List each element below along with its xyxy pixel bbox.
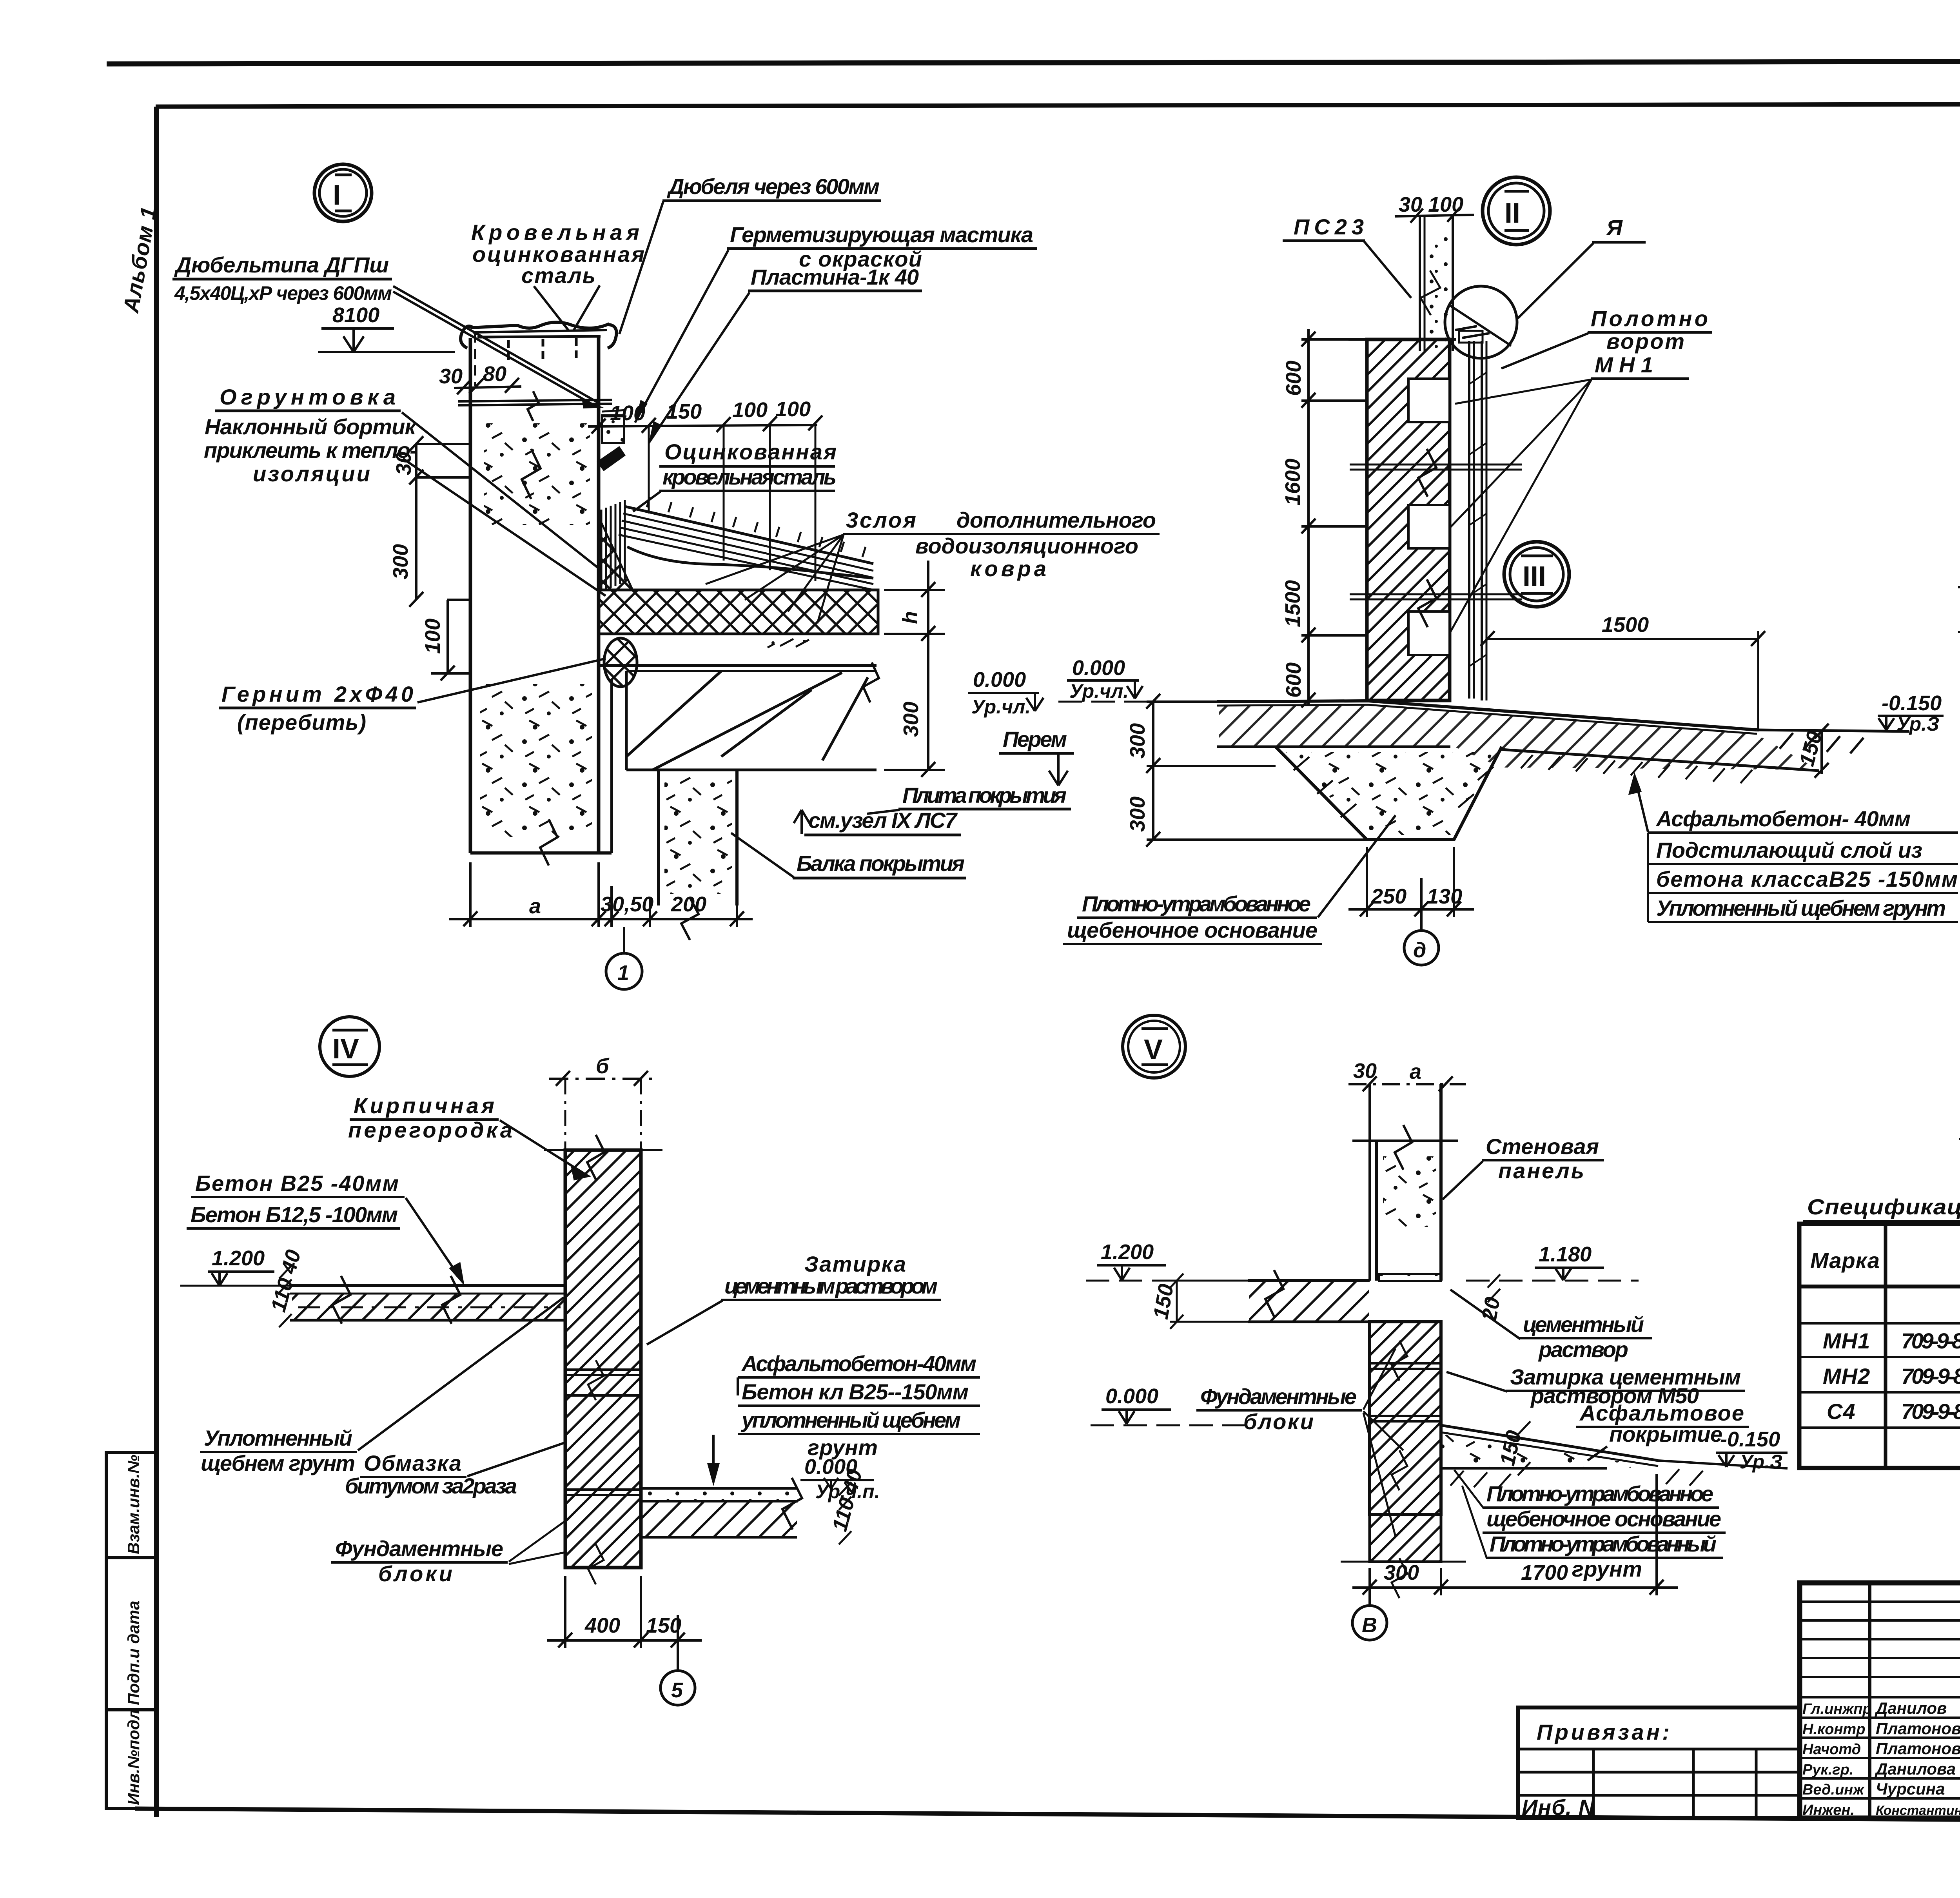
svg-text:Подп.и дата: Подп.и дата [124, 1601, 143, 1706]
bottom dim chain of detail I [449, 862, 753, 927]
spec table grid [1799, 1224, 1960, 1468]
svg-text:Перем: Перем [1003, 727, 1067, 751]
svg-text:300: 300 [1384, 1561, 1419, 1584]
svg-text:Уплотненный: Уплотненный [204, 1426, 353, 1450]
main frame bottom border [135, 1809, 1960, 1824]
svg-text:0.000: 0.000 [973, 668, 1026, 691]
svg-text:400: 400 [584, 1614, 620, 1637]
dim 150 slope [1518, 1421, 1530, 1475]
svg-text:Плотно-утрамбованное: Плотно-утрамбованное [1486, 1481, 1714, 1506]
svg-text:бетона классаВ25 -150мм: бетона классаВ25 -150мм [1656, 867, 1958, 891]
main frame left border [154, 107, 159, 1817]
node circle 1 below [623, 927, 625, 953]
svg-text:Оцинкованная: Оцинкованная [664, 439, 837, 464]
svg-text:250: 250 [1371, 885, 1406, 908]
svg-text:щебеночное основание: щебеночное основание [1067, 918, 1318, 942]
svg-text:ворот: ворот [1606, 329, 1685, 354]
svg-text:Дюбельтипа ДГПш: Дюбельтипа ДГПш [174, 252, 389, 277]
svg-text:раствор: раствор [1538, 1337, 1629, 1362]
sloping membrane fan [619, 506, 873, 590]
svg-text:Фундаментные: Фундаментные [335, 1536, 504, 1561]
svg-text:II: II [1504, 198, 1520, 229]
svg-text:перегородка: перегородка [348, 1118, 513, 1142]
svg-text:Марка: Марка [1810, 1248, 1880, 1273]
break symbol in wall [522, 449, 541, 499]
node circle В [1368, 1595, 1371, 1606]
upper break line across parapet [458, 391, 612, 421]
svg-text:150: 150 [666, 400, 702, 423]
svg-text:300: 300 [1126, 723, 1149, 758]
svg-text:Инжен.: Инжен. [1802, 1802, 1855, 1818]
svg-text:МН2: МН2 [1823, 1364, 1870, 1388]
svg-text:Затирка: Затирка [804, 1252, 906, 1276]
svg-text:Герметизирующая мастика: Герметизирующая мастика [730, 222, 1034, 247]
svg-text:цементным раствором: цементным раствором [724, 1274, 938, 1298]
svg-text:1600: 1600 [1281, 459, 1305, 506]
left margin stamp boxes [106, 1453, 156, 1809]
svg-text:Дюбеля через 600мм: Дюбеля через 600мм [667, 174, 880, 199]
svg-text:кровельнаясталь: кровельнаясталь [662, 465, 837, 489]
wall section hatched [1367, 339, 1450, 700]
right dim h / 300 [884, 561, 945, 777]
wall joint double lines [565, 1370, 641, 1495]
MH embedded plates in wall [1408, 379, 1450, 655]
svg-text:Я: Я [1606, 215, 1623, 240]
tick hatch along top membrane [647, 497, 866, 557]
gate head circled detail [1445, 286, 1517, 358]
svg-text:1.200: 1.200 [212, 1247, 265, 1270]
svg-text:V: V [1144, 1034, 1163, 1065]
svg-text:Инв.№подл: Инв.№подл [124, 1709, 143, 1805]
svg-text:щебеночное основание: щебеночное основание [1486, 1506, 1722, 1531]
layers list labels right [1630, 776, 1958, 922]
bortik black wedge [597, 446, 626, 471]
svg-text:д: д [1413, 938, 1426, 962]
svg-text:Рук.гр.: Рук.гр. [1802, 1762, 1853, 1778]
svg-text:709-9-80.87 Ап.2 ЯСИ-0034: 709-9-80.87 Ап.2 ЯСИ-0034 [1901, 1328, 1960, 1353]
svg-text:Данилова: Данилова [1875, 1760, 1956, 1778]
node circle III [1504, 542, 1569, 607]
svg-text:IV: IV [332, 1033, 359, 1065]
dim 150 left of slab [1170, 1274, 1183, 1329]
svg-text:сталь: сталь [521, 263, 596, 288]
dim 250 130 below foundation [1348, 847, 1474, 917]
svg-text:Плотно-утрамбованный: Плотно-утрамбованный [1490, 1531, 1717, 1556]
insulation crosshatched band [599, 590, 878, 634]
svg-text:В: В [1362, 1613, 1377, 1637]
svg-text:приклеить к тепло-: приклеить к тепло- [204, 438, 417, 463]
brick partition wall [565, 1150, 641, 1568]
svg-text:С4: С4 [1827, 1399, 1856, 1424]
svg-text:150: 150 [646, 1614, 681, 1637]
column under beam [659, 770, 737, 905]
svg-text:1700: 1700 [1521, 1561, 1568, 1584]
floor slab band left [290, 1286, 565, 1320]
svg-text:Асфальтобетон-40мм: Асфальтобетон-40мм [741, 1351, 977, 1376]
svg-text:блоки: блоки [1243, 1409, 1314, 1434]
svg-text:грунт: грунт [1572, 1557, 1642, 1581]
svg-text:Вед.инж: Вед.инж [1802, 1782, 1865, 1798]
svg-text:Кирпичная: Кирпичная [354, 1093, 495, 1118]
foundation trapezoid [1276, 747, 1502, 840]
dim 150 right slope [1815, 724, 1829, 778]
node circle 5 [677, 1648, 679, 1671]
leader wire to cap [393, 286, 600, 408]
svg-text:3слоя: 3слоя [846, 508, 916, 532]
gernit gasket ellipse [604, 638, 637, 687]
title block outer box [1800, 1583, 1960, 1818]
svg-text:Н.контр: Н.контр [1802, 1721, 1865, 1738]
wall panel of V [1352, 1084, 1458, 1281]
left dim chain 600/1600/1500/600 [1301, 329, 1367, 708]
svg-text:30,50: 30,50 [601, 893, 653, 916]
svg-text:I: I [333, 180, 341, 211]
svg-text:МН1: МН1 [1595, 352, 1653, 377]
svg-text:дополнительного: дополнительного [956, 508, 1156, 532]
svg-text:Фундаментные: Фундаментные [1200, 1384, 1357, 1409]
svg-text:100: 100 [775, 397, 811, 421]
ПС strip above wall [1420, 215, 1453, 351]
svg-text:Платонов: Платонов [1876, 1719, 1960, 1738]
left dims 300/300 [1146, 694, 1367, 847]
svg-text:a: a [1410, 1060, 1421, 1083]
svg-text:б: б [596, 1054, 610, 1078]
svg-text:Ур.З: Ур.З [1740, 1451, 1782, 1473]
svg-text:Обмазка: Обмазка [364, 1451, 462, 1475]
svg-text:III: III [1523, 561, 1546, 592]
svg-text:1.180: 1.180 [1539, 1243, 1592, 1266]
ground hatch ticks right of asphalt [1780, 733, 1864, 753]
corner wedge crosshatched [599, 517, 633, 590]
svg-text:Константино: Константино [1876, 1803, 1960, 1818]
asphalt slope right [1441, 1425, 1788, 1468]
svg-text:ковра: ковра [970, 556, 1047, 581]
svg-text:30: 30 [392, 452, 416, 475]
svg-text:0.000: 0.000 [1105, 1384, 1158, 1408]
svg-text:100: 100 [421, 619, 445, 654]
svg-text:-0.150: -0.150 [1720, 1428, 1780, 1451]
svg-text:Плита покрытия: Плита покрытия [902, 783, 1067, 807]
small dims 110 40 right [839, 1482, 851, 1544]
roof slab band [599, 666, 877, 671]
svg-text:Ур.З: Ур.З [1896, 713, 1939, 735]
svg-text:Асфальтобетон- 40мм: Асфальтобетон- 40мм [1655, 806, 1911, 831]
cement mortar strip [1379, 1274, 1441, 1281]
svg-text:(перебить): (перебить) [237, 710, 367, 735]
node circle II [1483, 177, 1550, 245]
svg-text:130: 130 [1427, 885, 1462, 908]
svg-text:Ур.чл.: Ур.чл. [1069, 680, 1129, 702]
svg-text:Ур.чл.: Ур.чл. [971, 696, 1031, 718]
svg-text:см.узел IX ЛС7: см.узел IX ЛС7 [808, 808, 958, 833]
svg-text:600: 600 [1282, 662, 1305, 698]
staff columns grid [1868, 1583, 1871, 1818]
svg-text:0.000: 0.000 [1072, 656, 1125, 680]
node circle V [1123, 1015, 1185, 1078]
svg-text:уплотненный щебнем: уплотненный щебнем [740, 1408, 961, 1432]
svg-text:щебнем грунт: щебнем грунт [201, 1451, 356, 1475]
ground line and asphalt band [1217, 701, 1909, 771]
parapet wall panel [469, 338, 472, 853]
svg-text:битумом за2раза: битумом за2раза [345, 1473, 517, 1498]
sheet outer top border line [107, 61, 1960, 64]
svg-text:покрытие: покрытие [1609, 1422, 1723, 1446]
privyazan block [1518, 1707, 1800, 1818]
svg-text:Гл.инжпр: Гл.инжпр [1802, 1701, 1872, 1717]
svg-text:Бетон кл В25--150мм: Бетон кл В25--150мм [742, 1379, 969, 1404]
roof membrane flashing bundle up the parapet corner [601, 500, 625, 590]
svg-text:1500: 1500 [1281, 580, 1305, 627]
svg-text:Наклонный бортик: Наклонный бортик [205, 414, 417, 439]
hatch ticks around foundation [1294, 757, 1494, 817]
svg-text:водоизоляционного: водоизоляционного [915, 533, 1139, 558]
svg-text:80: 80 [483, 362, 506, 386]
svg-text:h: h [898, 611, 922, 624]
left dim chain of detail I [409, 436, 470, 680]
ground hatch ticks under slope [1450, 1469, 1703, 1489]
svg-text:-0.150: -0.150 [1882, 691, 1942, 715]
svg-text:5: 5 [671, 1678, 683, 1702]
svg-text:МН1: МН1 [1823, 1328, 1870, 1353]
node circle I [314, 164, 372, 221]
svg-text:1500: 1500 [1602, 613, 1649, 637]
svg-text:Данилов: Данилов [1875, 1699, 1947, 1717]
svg-text:600: 600 [1282, 361, 1305, 396]
svg-text:100: 100 [732, 398, 768, 422]
right floor asphalt strip [641, 1488, 798, 1501]
svg-text:Стеновая: Стеновая [1486, 1134, 1599, 1159]
svg-text:изоляции: изоляции [253, 461, 370, 486]
svg-text:300: 300 [1126, 797, 1149, 832]
node circle д below [1420, 917, 1423, 931]
svg-text:Бетон Б12,5 -100мм: Бетон Б12,5 -100мм [191, 1202, 398, 1227]
svg-text:Подстилающий слой из: Подстилающий слой из [1656, 838, 1923, 862]
small dims 110 40 left [279, 1265, 292, 1327]
svg-text:ПС23: ПС23 [1294, 214, 1364, 239]
svg-text:300: 300 [389, 544, 412, 579]
svg-text:30: 30 [439, 365, 463, 388]
svg-text:709-9-80.87Ап.2 АСИ-0035: 709-9-80.87Ап.2 АСИ-0035 [1901, 1364, 1960, 1388]
svg-text:200: 200 [671, 893, 706, 916]
svg-text:709-9-80.87Ап.2 АСИ-0047: 709-9-80.87Ап.2 АСИ-0047 [1901, 1399, 1960, 1424]
svg-text:цементный: цементный [1523, 1312, 1644, 1337]
staff names column [1875, 1699, 1960, 1818]
bottom dims 300 1700 [1352, 1474, 1678, 1595]
svg-text:Спецификация закладных изделий: Спецификация закладных изделий по архите… [1807, 1194, 1960, 1219]
extension verticals from dim row down to roof [649, 425, 815, 581]
staff titles column [1802, 1701, 1872, 1818]
svg-text:30 100: 30 100 [1399, 193, 1463, 216]
main frame top line [156, 103, 1960, 107]
svg-text:Балка покрытия: Балка покрытия [797, 851, 965, 876]
svg-text:Платонов: Платонов [1876, 1739, 1960, 1758]
svg-text:Привязан:: Привязан: [1537, 1720, 1670, 1744]
gate leaf strips right of wall [1469, 341, 1486, 700]
svg-text:300: 300 [899, 702, 923, 737]
node circle IV [320, 1017, 379, 1076]
parapet cap (кровельный оголовок) [461, 322, 617, 386]
svg-text:Чурсина: Чурсина [1876, 1780, 1945, 1798]
svg-text:Инб. N: Инб. N [1522, 1795, 1595, 1820]
floor slab band V [1248, 1281, 1370, 1322]
svg-text:Пластина-1к 40: Пластина-1к 40 [751, 265, 919, 289]
svg-text:8100: 8100 [332, 303, 379, 327]
svg-text:Начотд: Начотд [1802, 1741, 1861, 1758]
beam support structure under slab [626, 662, 879, 770]
svg-text:Уплотненный щебнем грунт: Уплотненный щебнем грунт [1656, 896, 1946, 920]
mastika block at cap base [602, 416, 624, 443]
svg-text:блоки: блоки [378, 1561, 453, 1586]
svg-text:Плотно-утрамбованное: Плотно-утрамбованное [1082, 891, 1311, 916]
svg-text:4,5х40Ц,хР через 600мм: 4,5х40Ц,хР через 600мм [174, 282, 392, 304]
dim 20 right of panel top [1488, 1274, 1500, 1302]
svg-text:Бетон В25 -40мм: Бетон В25 -40мм [195, 1171, 399, 1196]
foundation blocks V [1370, 1322, 1441, 1515]
svg-text:1: 1 [617, 961, 629, 985]
svg-text:Взам.инв.№: Взам.инв.№ [124, 1455, 143, 1554]
bottom dims 400 150 [547, 1576, 702, 1648]
svg-text:a: a [529, 895, 541, 918]
svg-text:1.200: 1.200 [1101, 1240, 1154, 1264]
wall break lines [1350, 449, 1522, 627]
